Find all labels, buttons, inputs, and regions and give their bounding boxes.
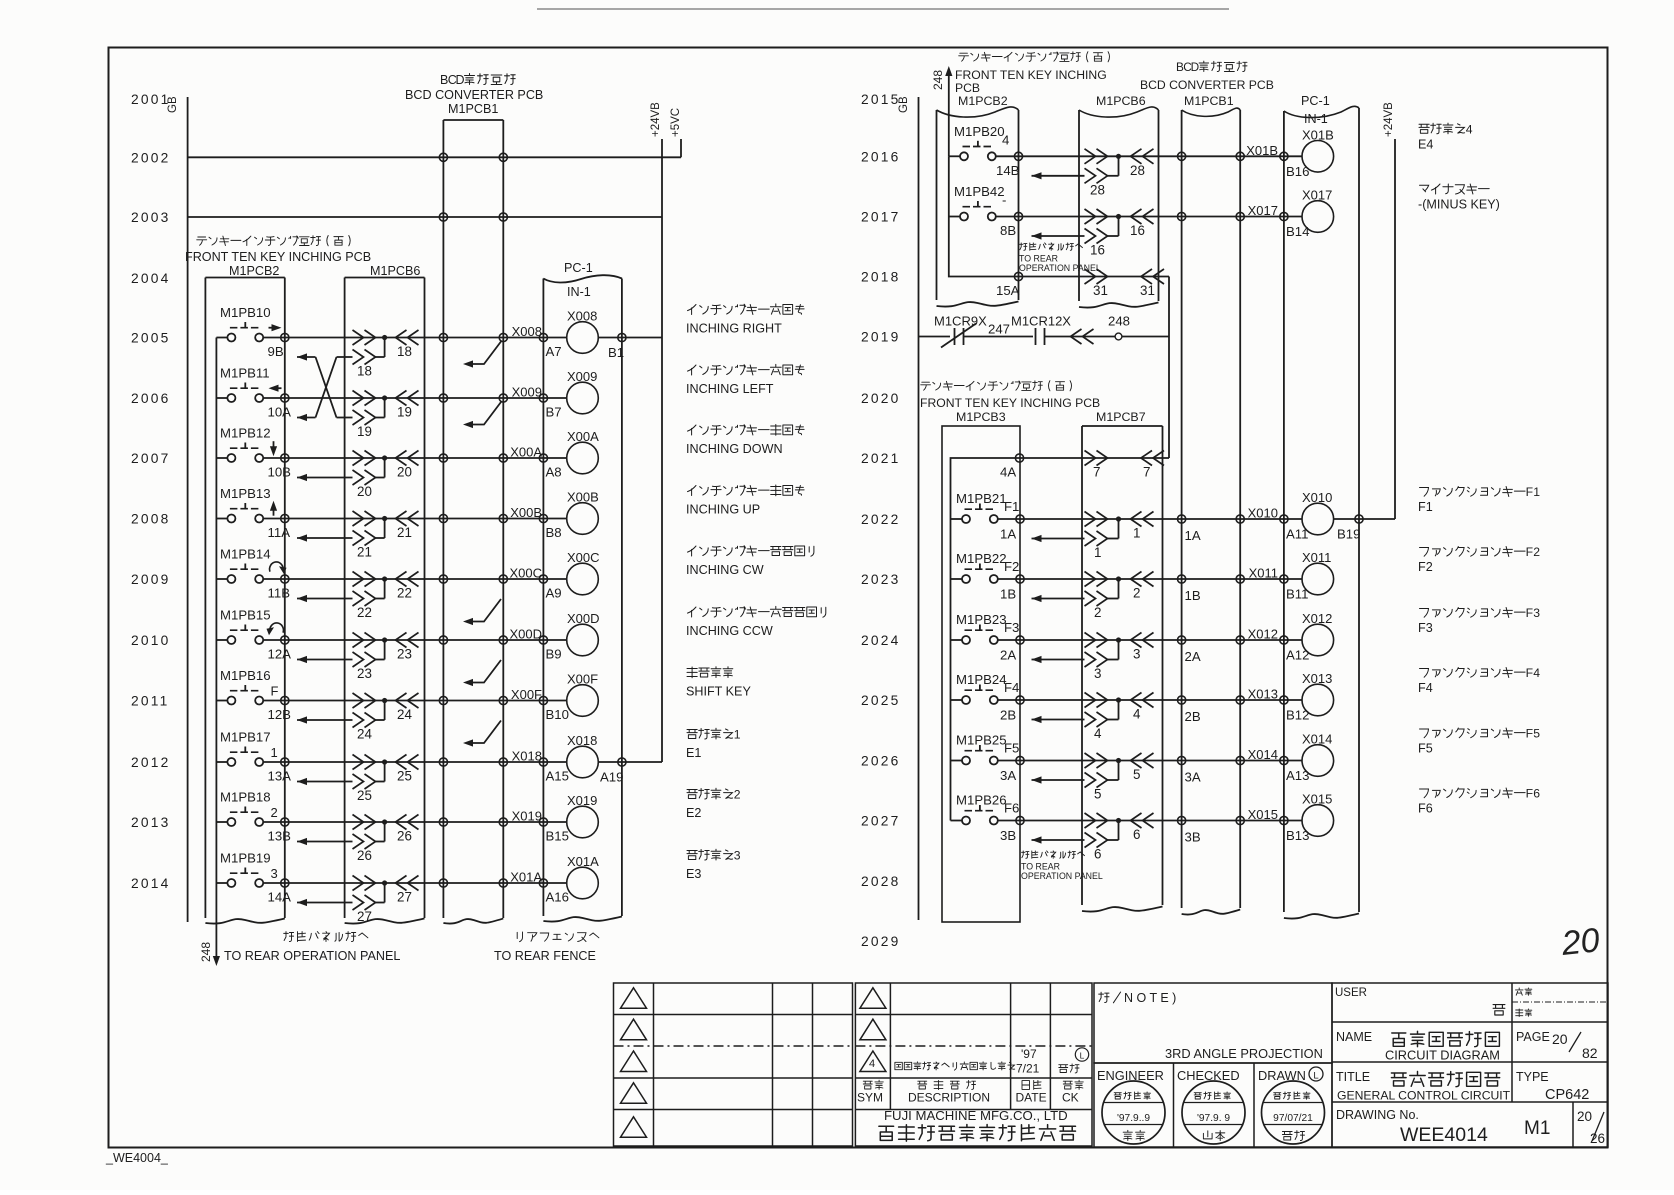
pushbutton M1PB12: [216, 426, 284, 463]
svg-text:F3: F3: [1418, 621, 1433, 635]
revision triangle L2: [621, 1019, 647, 1040]
svg-text:27: 27: [357, 909, 372, 924]
wire row 2008 main: [285, 518, 544, 520]
svg-text:F: F: [1526, 666, 1533, 680]
svg-text:PCB: PCB: [955, 81, 980, 95]
wire return sub-line (pin 24): [297, 701, 385, 742]
svg-text:M1PB12: M1PB12: [220, 426, 271, 441]
svg-text:4A: 4A: [1000, 465, 1016, 480]
circled L (drawn): [1309, 1067, 1323, 1081]
svg-text:M1PCB1: M1PCB1: [1184, 94, 1234, 108]
connector circle X00C: [543, 578, 566, 580]
wire return sub-line right (pin 1): [1032, 519, 1119, 560]
svg-text:31: 31: [1140, 283, 1155, 298]
svg-text:M1PCB6: M1PCB6: [1096, 94, 1146, 108]
svg-text:1: 1: [734, 728, 741, 742]
wire row 2026 main: [1020, 760, 1284, 762]
label row 2005: [688, 304, 805, 315]
svg-text:M1PB13: M1PB13: [220, 486, 271, 501]
node PC-1 pin B14: [1280, 212, 1288, 220]
node 9B (M1PCB2 pin): [281, 333, 289, 341]
node PC-1 pin B13: [1280, 816, 1288, 824]
svg-text:X012: X012: [1248, 627, 1278, 642]
svg-text:F2: F2: [1418, 560, 1433, 574]
node M1PCB1 left pin 2B: [1178, 696, 1186, 704]
wire chevrons row (pins 18): [353, 330, 419, 359]
wire row 2005 to +24VB: [598, 337, 662, 339]
node M1PCB1 left pin row 2007: [439, 454, 447, 462]
svg-text:18: 18: [357, 364, 372, 379]
connector circle X00B: [543, 518, 566, 520]
connector circle X009: [543, 397, 566, 399]
svg-text:3: 3: [734, 849, 741, 863]
pushbutton M1PB10: [216, 305, 284, 342]
wire row 2009 main: [285, 578, 544, 580]
svg-text:25: 25: [357, 788, 372, 803]
BCD converter PCB M1PCB1 (left) box: [442, 120, 444, 918]
svg-text:F: F: [1526, 787, 1533, 801]
svg-text:1: 1: [1133, 526, 1140, 541]
node M1PCB1 left pin row 2014: [439, 879, 447, 887]
svg-text:+5VC: +5VC: [670, 108, 682, 137]
svg-text:2: 2: [271, 805, 278, 820]
svg-text:X010: X010: [1302, 490, 1332, 505]
svg-text:F1: F1: [1418, 500, 1433, 514]
wire return sub-line (pin 27): [297, 883, 385, 924]
svg-text:X01B: X01B: [1246, 143, 1278, 158]
node M1PCB1 left pin row 2006: [439, 394, 447, 402]
svg-text:2011: 2011: [131, 694, 169, 709]
wire row 2027 main: [1020, 820, 1284, 822]
node 10B (M1PCB2 pin): [281, 454, 289, 462]
svg-text:'97.9..9: '97.9..9: [1117, 1113, 1150, 1124]
svg-text:X013: X013: [1248, 687, 1278, 702]
svg-text:M1PB11: M1PB11: [220, 366, 270, 381]
label row 2022: [1420, 485, 1541, 499]
svg-text:TO REAR FENCE: TO REAR FENCE: [494, 949, 596, 963]
svg-text:-: -: [1002, 193, 1006, 208]
svg-text:247: 247: [988, 322, 1010, 337]
svg-text:7: 7: [1093, 465, 1100, 480]
svg-text:X00B: X00B: [510, 505, 542, 520]
svg-text:NAME: NAME: [1336, 1030, 1372, 1044]
node M1PCB1 left pin 3A: [1178, 756, 1186, 764]
svg-text:M1PB23: M1PB23: [956, 612, 1007, 627]
PCB M1PCB6 (right) box: [1078, 110, 1080, 301]
stamp ENGINEER: [1102, 1081, 1165, 1144]
note box: [1094, 983, 1332, 1063]
headers right lower: [921, 381, 1072, 391]
svg-text:PC-1: PC-1: [564, 261, 593, 275]
wire return sub-line right (pin 16): [1032, 217, 1119, 258]
svg-text:M1PB18: M1PB18: [220, 790, 271, 805]
label row 2014: [687, 849, 741, 863]
svg-text:BCD CONVERTER PCB: BCD CONVERTER PCB: [405, 88, 543, 102]
revision table (right): [855, 983, 1092, 1146]
annotation arrow row 2010: [466, 660, 501, 683]
pushbutton M1PB17: [216, 730, 284, 767]
svg-text:10B: 10B: [268, 465, 292, 480]
wire chevrons right row (pin 16): [1085, 209, 1154, 238]
svg-text:B1: B1: [608, 345, 624, 360]
svg-text:F: F: [271, 684, 279, 699]
wire chevrons right row (pin 6): [1085, 813, 1154, 842]
svg-text:N O T E ): N O T E ): [1124, 991, 1176, 1005]
svg-text:15A: 15A: [996, 283, 1020, 298]
svg-text:CIRCUIT DIAGRAM: CIRCUIT DIAGRAM: [1385, 1048, 1500, 1063]
svg-text:L: L: [1080, 1051, 1085, 1061]
node M1PCB1 right pin row 2005: [499, 333, 507, 341]
node B1: [618, 333, 626, 341]
label row 2010: [688, 606, 826, 617]
svg-text:6: 6: [1133, 827, 1140, 842]
svg-text:'97.9. 9: '97.9. 9: [1197, 1113, 1230, 1124]
node PC-1 pin B15: [539, 818, 547, 826]
svg-text:2025: 2025: [861, 693, 901, 708]
svg-text:+24VB: +24VB: [1383, 102, 1395, 137]
wire row 2022 to +24VB: [1334, 518, 1395, 520]
header row SYM/DESCRIPTION/DATE/CK: [863, 1080, 883, 1089]
wire return sub-line (pin 26): [297, 822, 385, 863]
net +5VC stub: [680, 139, 682, 157]
connector circle X014: [1284, 760, 1303, 762]
svg-text:2B: 2B: [1000, 708, 1016, 723]
svg-text:TYPE: TYPE: [1516, 1070, 1549, 1084]
svg-text:1B: 1B: [1000, 587, 1016, 602]
svg-text:X019: X019: [512, 809, 542, 824]
svg-text:2020: 2020: [861, 391, 901, 406]
svg-text:5: 5: [1533, 727, 1540, 741]
svg-text:TO REAR: TO REAR: [1019, 254, 1058, 264]
svg-text:19: 19: [357, 424, 372, 439]
svg-text:BCD CONVERTER PCB: BCD CONVERTER PCB: [1140, 78, 1274, 92]
svg-text:2002: 2002: [131, 150, 171, 165]
stamp CHECKED: [1182, 1081, 1245, 1144]
pushbutton M1PB13: [216, 486, 284, 523]
svg-text:4: 4: [1133, 707, 1141, 722]
node M1PCB1 left pin row 2011: [439, 696, 447, 704]
connector circle X012: [1284, 639, 1303, 641]
node 14B: [1014, 152, 1022, 160]
wire return sub-line (pin 18): [353, 338, 385, 379]
label row 2012: [687, 728, 741, 742]
node 2B: [1016, 696, 1024, 704]
svg-text:F5: F5: [1418, 742, 1433, 756]
wire row 2013 main: [285, 821, 544, 823]
svg-text:'97: '97: [1021, 1047, 1037, 1061]
svg-text:8B: 8B: [1000, 223, 1016, 238]
svg-text:1: 1: [1094, 545, 1101, 560]
to rear operation panel label (left): [284, 932, 368, 942]
svg-text:M1PB19: M1PB19: [220, 851, 271, 866]
connector circle X010: [1284, 518, 1303, 520]
label row 2023: [1420, 545, 1541, 559]
svg-text:-(MINUS KEY): -(MINUS KEY): [1418, 198, 1500, 212]
node 3A: [1016, 756, 1024, 764]
wire chevrons row (pins 21): [353, 511, 419, 540]
node PC-1 pin A8: [539, 454, 547, 462]
svg-text:M1PB25: M1PB25: [956, 733, 1007, 748]
annotation arrow row 2009: [466, 599, 501, 622]
svg-text:WEE4014: WEE4014: [1400, 1124, 1488, 1146]
wire chevrons right row (pin 5): [1085, 753, 1154, 782]
connector circle X018: [543, 761, 566, 763]
node M1PCB1 right pin row 2009: [499, 575, 507, 583]
connector circle X015: [1284, 820, 1303, 822]
node M1PCB1 right pin row 2013: [499, 818, 507, 826]
label row 2027: [1420, 787, 1541, 801]
node 11B (M1PCB2 pin): [281, 575, 289, 583]
revision triangle L1: [621, 988, 647, 1008]
svg-text:M1PCB3: M1PCB3: [956, 410, 1006, 424]
node PC-1 pin A12: [1280, 636, 1288, 644]
svg-text:F4: F4: [1418, 681, 1433, 695]
svg-text:18: 18: [397, 344, 412, 359]
wire 2018-2021 vertical link: [1168, 277, 1170, 459]
node PC-1 pin B8: [539, 514, 547, 522]
wire row 2012 main: [285, 761, 544, 763]
svg-text:E1: E1: [686, 746, 701, 760]
svg-text:2016: 2016: [861, 149, 901, 164]
svg-text:M1PCB6: M1PCB6: [370, 264, 420, 278]
BCD converter PCB M1PCB1 (right) box: [1181, 110, 1183, 908]
svg-text:M1PB20: M1PB20: [954, 124, 1005, 139]
PCB M1PCB2 (right) box: [936, 110, 938, 300]
to rear operation panel (mid note): [1020, 243, 1083, 250]
wire chevrons row (pins 22): [353, 572, 419, 601]
svg-text:B9: B9: [546, 647, 562, 662]
node M1PCB1 right pin row 2010: [499, 636, 507, 644]
node M1PCB1 left pin 1B: [1178, 575, 1186, 583]
svg-text:X012: X012: [1302, 611, 1332, 626]
node 10A (M1PCB2 pin): [281, 394, 289, 402]
node 13A (M1PCB2 pin): [281, 758, 289, 766]
wire chevrons right row (pin 2): [1085, 572, 1154, 601]
node row2003/M1PCB1 pins: [439, 213, 447, 221]
svg-text:F6: F6: [1418, 802, 1433, 816]
wire row 2006 main: [285, 397, 544, 399]
svg-text:X00F: X00F: [511, 687, 542, 702]
node PC-1 pin B7: [539, 394, 547, 402]
node PC-1 pin B16: [1280, 152, 1288, 160]
svg-text:B15: B15: [546, 829, 569, 844]
svg-text:E2: E2: [686, 806, 701, 820]
svg-text:28: 28: [1130, 163, 1145, 178]
svg-text:F3: F3: [1004, 620, 1019, 635]
svg-text:11A: 11A: [268, 525, 291, 540]
net 248 up arrow: [948, 72, 950, 156]
svg-text:2014: 2014: [131, 876, 171, 891]
svg-text:3: 3: [1094, 666, 1101, 681]
relay contact M1CR9X (NC): [934, 314, 987, 348]
svg-text:F6: F6: [1004, 801, 1019, 816]
svg-text:M1PB21: M1PB21: [956, 491, 1007, 506]
svg-text:19: 19: [397, 405, 412, 420]
node M1PCB1 right pin row 2012: [499, 758, 507, 766]
pushbutton M1PB21: [951, 491, 1021, 523]
svg-text:16: 16: [1130, 223, 1145, 238]
svg-text:M1PB24: M1PB24: [956, 672, 1007, 687]
svg-text:INCHING LEFT: INCHING LEFT: [686, 382, 774, 396]
svg-text:3RD ANGLE PROJECTION: 3RD ANGLE PROJECTION: [1165, 1046, 1323, 1061]
pushbutton M1PB42: [949, 184, 1019, 221]
node M1PCB1 right pin row 2014: [499, 879, 507, 887]
connector circle X00A: [543, 457, 566, 459]
svg-text:B7: B7: [546, 405, 562, 420]
node row2002/M1PCB1 pins: [439, 153, 447, 161]
svg-text:PC-1: PC-1: [1301, 94, 1330, 108]
svg-text:2A: 2A: [1185, 649, 1201, 664]
node 12A (M1PCB2 pin): [281, 636, 289, 644]
pushbutton M1PB19: [216, 851, 284, 888]
svg-text:2027: 2027: [861, 814, 901, 829]
svg-text:X010: X010: [1248, 506, 1278, 521]
label row 2011: [687, 667, 733, 678]
node M1PCB1 right pin row 2025: [1236, 696, 1244, 704]
pushbutton M1PB24: [951, 672, 1021, 704]
svg-text:X013: X013: [1302, 671, 1332, 686]
pushbutton left rail (M1PCB2 internal, net 248): [215, 338, 217, 961]
node PC-1 pin A13: [1280, 756, 1288, 764]
svg-text:A15: A15: [546, 769, 569, 784]
svg-text:A19: A19: [600, 770, 623, 785]
svg-text:F1: F1: [1004, 499, 1019, 514]
node PC-1 pin A16: [539, 879, 547, 887]
net GB left rail: [187, 97, 189, 922]
svg-text:6: 6: [1094, 847, 1101, 862]
svg-text:2B: 2B: [1185, 709, 1201, 724]
svg-text:2029: 2029: [861, 934, 901, 949]
net +24VB left rail: [661, 139, 663, 762]
svg-text:X014: X014: [1248, 747, 1278, 762]
wire chevrons right row (pin 1): [1085, 512, 1154, 541]
node 3B: [1016, 816, 1024, 824]
svg-text:3: 3: [271, 866, 278, 881]
svg-text:X017: X017: [1248, 203, 1278, 218]
connector circle X011: [1284, 578, 1303, 580]
node PC-1 pin B9: [539, 636, 547, 644]
svg-text:4: 4: [1002, 132, 1009, 147]
svg-text:2019: 2019: [861, 330, 901, 345]
svg-text:3A: 3A: [1000, 768, 1016, 783]
svg-text:USER: USER: [1335, 987, 1367, 999]
svg-text:X00F: X00F: [567, 672, 598, 687]
terminal 248: [1115, 333, 1122, 340]
svg-text:INCHING RIGHT: INCHING RIGHT: [686, 322, 782, 336]
scan artifact top edge line: [537, 8, 1229, 10]
svg-text:24: 24: [397, 707, 412, 722]
svg-text:TO REAR: TO REAR: [1021, 862, 1060, 872]
node A19: [618, 758, 626, 766]
node M1PCB1 pins row 2017: [1178, 212, 1186, 220]
svg-text:X00D: X00D: [509, 627, 542, 642]
node 1B: [1016, 575, 1024, 583]
svg-text:A8: A8: [546, 465, 562, 480]
svg-text:M1PCB2: M1PCB2: [958, 94, 1008, 108]
node 12B (M1PCB2 pin): [281, 696, 289, 704]
svg-text:A9: A9: [546, 586, 562, 601]
relay contact M1CR12X: [1011, 314, 1071, 346]
svg-text:28: 28: [1090, 182, 1105, 197]
wire return sub-line (pin 22): [297, 579, 385, 620]
svg-text:1A: 1A: [1000, 527, 1016, 542]
svg-text:20: 20: [397, 465, 412, 480]
svg-text:2003: 2003: [131, 210, 171, 225]
svg-text:2: 2: [1533, 545, 1540, 559]
svg-text:M1PB16: M1PB16: [220, 668, 271, 683]
svg-text:22: 22: [357, 605, 372, 620]
wire return sub-line right (pin 2): [1032, 579, 1119, 620]
svg-text:2017: 2017: [861, 210, 901, 225]
svg-text:X00C: X00C: [509, 566, 542, 581]
svg-text:X008: X008: [567, 309, 597, 324]
label row 2007: [688, 425, 805, 436]
pushbutton M1PB15: [216, 608, 284, 645]
to rear operation panel (lower note): [1022, 851, 1085, 858]
svg-text:X01B: X01B: [1302, 127, 1334, 142]
svg-text:E4: E4: [1418, 137, 1433, 151]
wire chevrons row (pins 24): [353, 693, 419, 722]
svg-text:TO REAR OPERATION PANEL: TO REAR OPERATION PANEL: [224, 949, 400, 963]
node M1PCB1 right pin row 2027: [1236, 816, 1244, 824]
svg-text:3: 3: [1533, 606, 1540, 620]
pushbutton M1PB18: [216, 790, 284, 827]
node 1A: [1016, 515, 1024, 523]
svg-text:2015: 2015: [861, 92, 901, 107]
svg-text:M1PB10: M1PB10: [220, 305, 271, 320]
svg-text:21: 21: [397, 525, 412, 540]
svg-text:2: 2: [734, 788, 741, 802]
node M1PCB1 right pin row 2007: [499, 454, 507, 462]
wire return sub-line (pin 19): [353, 398, 385, 439]
svg-text:2012: 2012: [131, 755, 171, 770]
wire chevrons row (pins 27): [353, 876, 419, 905]
svg-text:F: F: [1526, 545, 1533, 559]
svg-text:FRONT TEN KEY INCHING PCB: FRONT TEN KEY INCHING PCB: [185, 250, 371, 264]
node M1PCB1 right pin row 2022: [1236, 515, 1244, 523]
svg-text:F: F: [1526, 727, 1533, 741]
wire return sub-line right (pin 3): [1032, 640, 1119, 681]
svg-text:26: 26: [397, 829, 412, 844]
svg-text:5: 5: [1094, 787, 1101, 802]
node PC-1 pin B11: [1280, 575, 1288, 583]
connector circle X008: [543, 337, 566, 339]
wire row 2022 main: [1020, 518, 1284, 520]
svg-text:20: 20: [1577, 1109, 1592, 1124]
wire chevrons right row (pin 28): [1085, 149, 1154, 178]
svg-text:2006: 2006: [131, 391, 171, 406]
wire chevrons row (pins 23): [353, 633, 419, 662]
svg-text:X008: X008: [512, 324, 542, 339]
wire chevrons row (pins 20): [353, 451, 419, 480]
wire chevrons row (pins 19): [353, 391, 419, 420]
node M1PCB1 right pin row 2011: [499, 696, 507, 704]
svg-text:2021: 2021: [861, 451, 901, 466]
svg-text:CK: CK: [1062, 1091, 1079, 1105]
pushbutton M1PB20: [949, 124, 1019, 161]
svg-text:X018: X018: [567, 733, 597, 748]
svg-text:F: F: [1526, 606, 1533, 620]
svg-text:D: D: [1191, 60, 1200, 74]
PCB M1PCB2 (left) box: [204, 278, 206, 919]
svg-text:B10: B10: [546, 707, 569, 722]
wire chevrons row (pins 25): [353, 755, 419, 784]
svg-text:25: 25: [397, 769, 412, 784]
node PC-1 pin B10: [539, 696, 547, 704]
node PC-1 pin A15: [539, 758, 547, 766]
svg-text:A16: A16: [546, 890, 569, 905]
svg-text:2023: 2023: [861, 572, 901, 587]
